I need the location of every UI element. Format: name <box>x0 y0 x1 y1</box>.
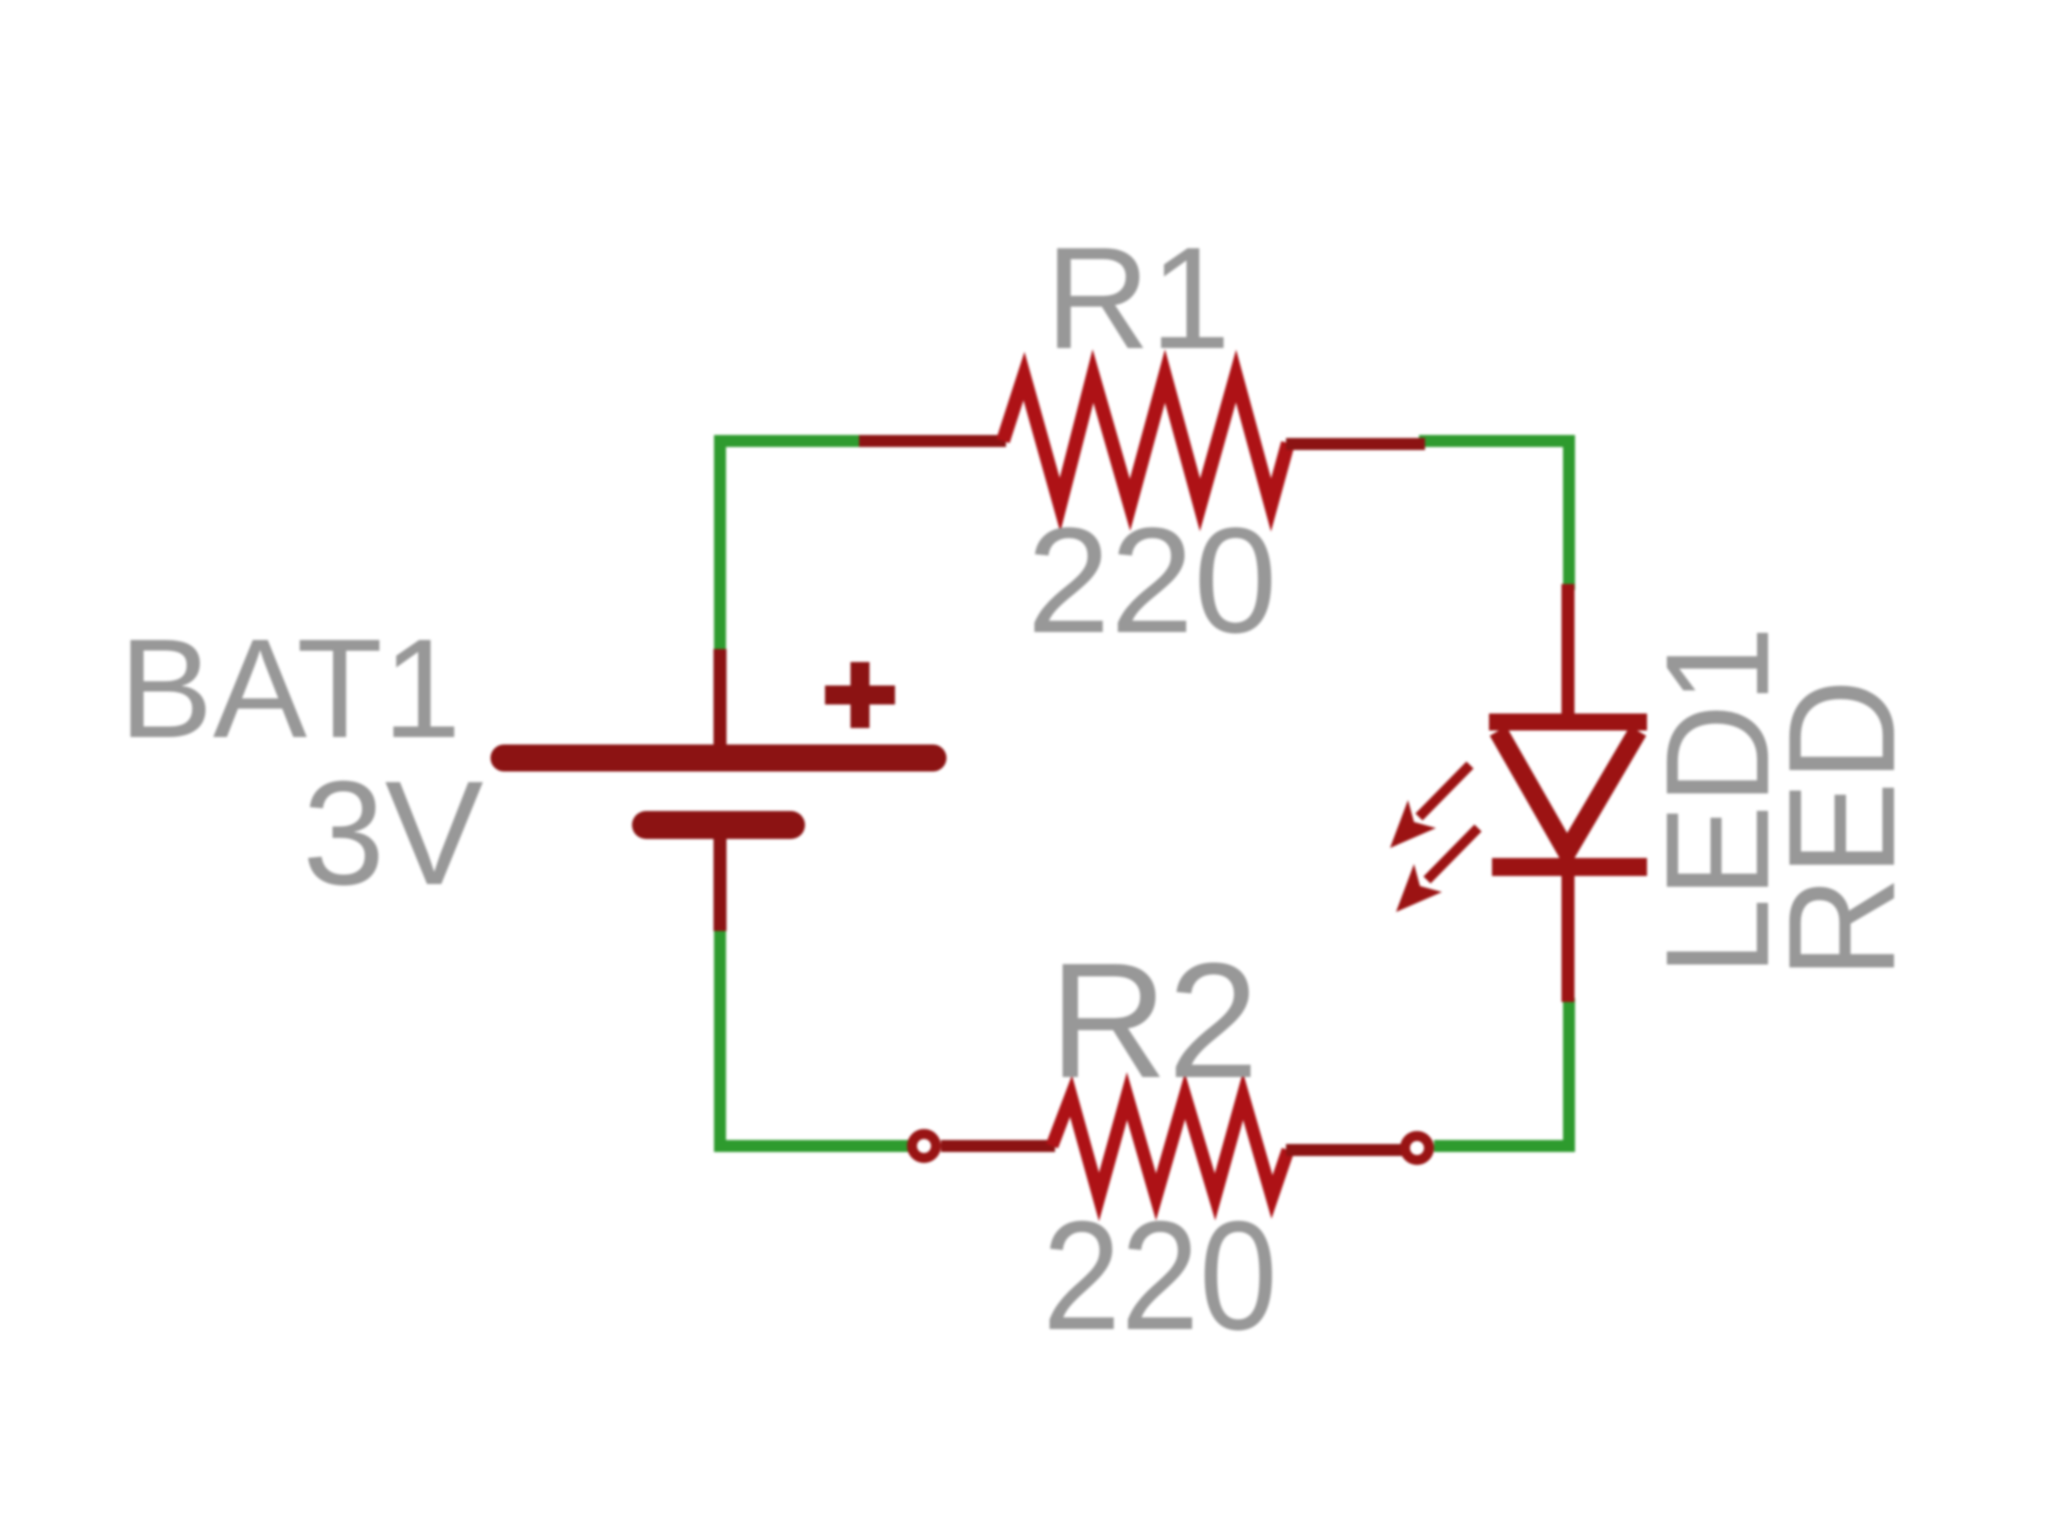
wire: right vertical green lower segment <box>1563 998 1575 1152</box>
LED1 cathode bar <box>1492 858 1647 876</box>
LED1 anode lead <box>1562 584 1575 722</box>
wire: right vertical green upper segment <box>1563 435 1575 590</box>
LED1 cathode lead <box>1562 852 1575 1002</box>
resistor R2 zigzag <box>1052 1096 1288 1197</box>
svg-text:R2: R2 <box>1049 929 1259 1112</box>
battery BAT1 positive plate <box>504 745 933 772</box>
LED1 triangle top bar <box>1489 714 1647 731</box>
wire: left vertical green upper segment <box>714 435 726 655</box>
svg-text:3V: 3V <box>302 751 483 916</box>
LED1 light arrow 2 <box>1396 828 1478 912</box>
battery BAT1 negative plate <box>646 811 791 839</box>
resistor R1 zigzag <box>1003 376 1288 505</box>
battery BAT1 bottom lead <box>714 836 727 931</box>
wire: R1 right lead <box>1286 438 1425 450</box>
LED1 light arrow 1 <box>1390 765 1470 848</box>
wire: R2 right lead <box>1286 1144 1402 1156</box>
wire: top net green right segment <box>1419 435 1575 447</box>
wire: R2 left lead <box>941 1140 1055 1152</box>
svg-text:BAT1: BAT1 <box>119 609 461 767</box>
svg-text:220: 220 <box>1043 1189 1278 1362</box>
svg-text:R1: R1 <box>1045 217 1230 379</box>
wire: left vertical green lower segment <box>714 927 726 1152</box>
battery BAT1 plus sign <box>825 662 895 728</box>
LED1 triangle body <box>1498 731 1638 852</box>
wire: bottom net green right segment <box>1434 1140 1575 1152</box>
node: R2 right terminal <box>1405 1136 1429 1160</box>
wire: R1 left lead <box>859 435 1006 447</box>
battery BAT1 top lead <box>714 649 727 750</box>
wire: bottom net green left segment <box>714 1140 910 1152</box>
svg-text:220: 220 <box>1027 496 1277 664</box>
wire: top net green left segment <box>714 435 865 447</box>
node: R2 left terminal <box>912 1134 936 1158</box>
svg-text:RED: RED <box>1757 679 1927 979</box>
